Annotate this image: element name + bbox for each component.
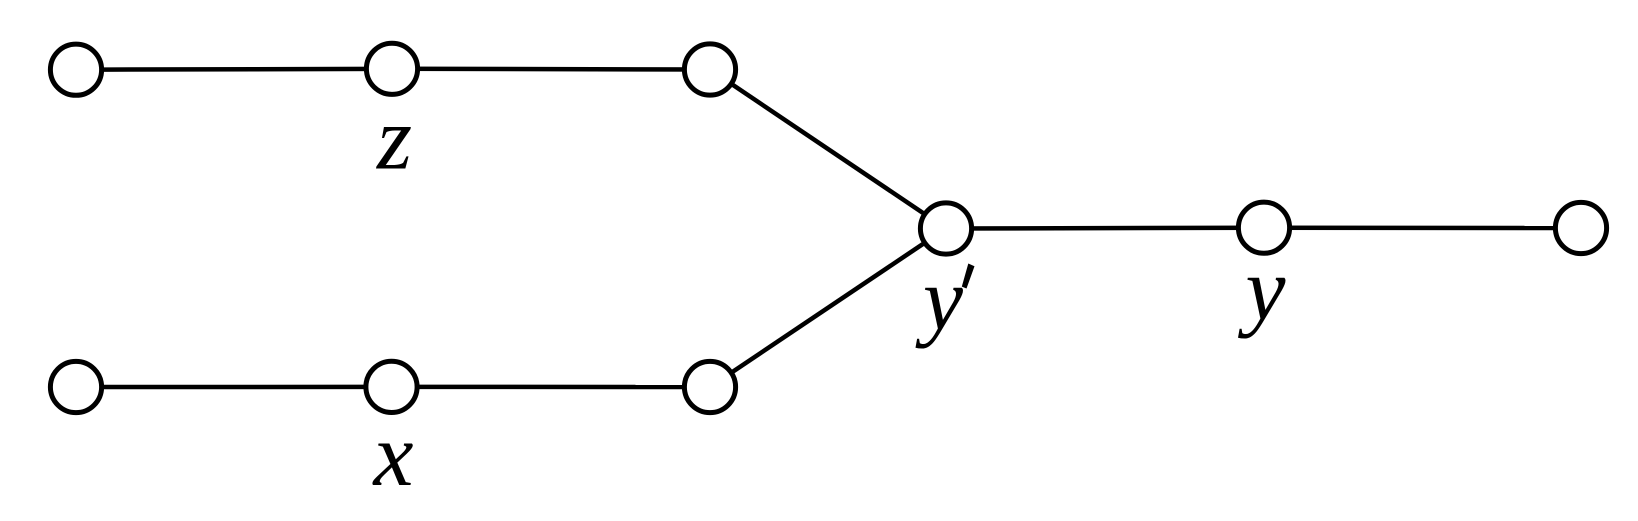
node top-left vertex [50,44,101,95]
wire bottom-left to x [76,385,392,390]
node z vertex [366,43,417,94]
node y vertex [1238,202,1289,253]
svg-text:x: x [372,406,414,505]
wire y' to y [946,225,1264,230]
svg-text:y: y [1238,240,1286,339]
wire bottom-right to y' [710,229,946,388]
node bottom-left vertex [50,361,101,412]
svg-text:z: z [375,90,412,189]
wire x to bottom-right [392,385,711,390]
wire top-right to y' [710,70,946,229]
node bottom-right vertex [684,361,735,412]
label y' prime mark [962,264,975,289]
wire y to rightmost [1264,225,1581,230]
node y' vertex [920,203,971,254]
node top-right vertex [684,44,735,95]
wire z to top-right [392,67,710,72]
svg-text:y: y [915,250,963,349]
node rightmost vertex [1555,202,1606,253]
node x vertex [366,361,417,412]
wire top-left to z [76,67,392,72]
